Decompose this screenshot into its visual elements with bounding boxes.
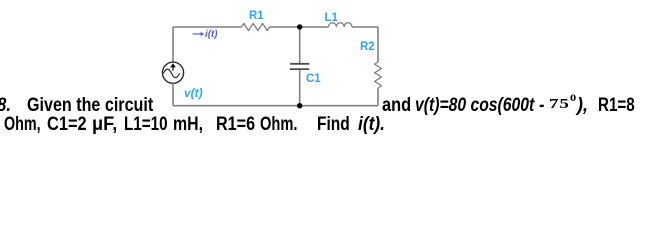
capacitor C1 xyxy=(290,63,309,65)
problem text line 2 xyxy=(4,115,41,135)
circuit schematic xyxy=(0,0,659,140)
wire left upper xyxy=(172,27,174,62)
voltage source v(t) xyxy=(162,62,183,83)
wire bottom xyxy=(173,105,378,107)
wire middle lower xyxy=(299,70,301,106)
problem text line 1 left xyxy=(0,96,11,116)
inductor L1 xyxy=(329,23,353,27)
wire right lower xyxy=(377,88,379,106)
label v(t) xyxy=(184,89,203,97)
label L1 xyxy=(325,14,338,22)
label i(t) xyxy=(205,31,218,39)
current arrow i(t) xyxy=(193,33,202,35)
wire left lower xyxy=(172,83,174,105)
label R2 xyxy=(360,43,375,51)
wire middle upper xyxy=(299,27,301,63)
wire top-left segment xyxy=(173,26,242,28)
label R1 xyxy=(249,12,264,20)
label C1 xyxy=(306,75,321,83)
problem text line 1 right xyxy=(382,96,411,116)
wire top-middle segment xyxy=(270,26,329,28)
wire top-right segment xyxy=(352,26,378,28)
resistor R2 xyxy=(375,62,382,88)
resistor R1 xyxy=(242,23,270,30)
node junction top xyxy=(297,24,302,29)
node junction bottom xyxy=(297,103,302,108)
wire right upper xyxy=(377,27,379,62)
source sine xyxy=(163,69,179,78)
source arrow xyxy=(172,67,174,71)
